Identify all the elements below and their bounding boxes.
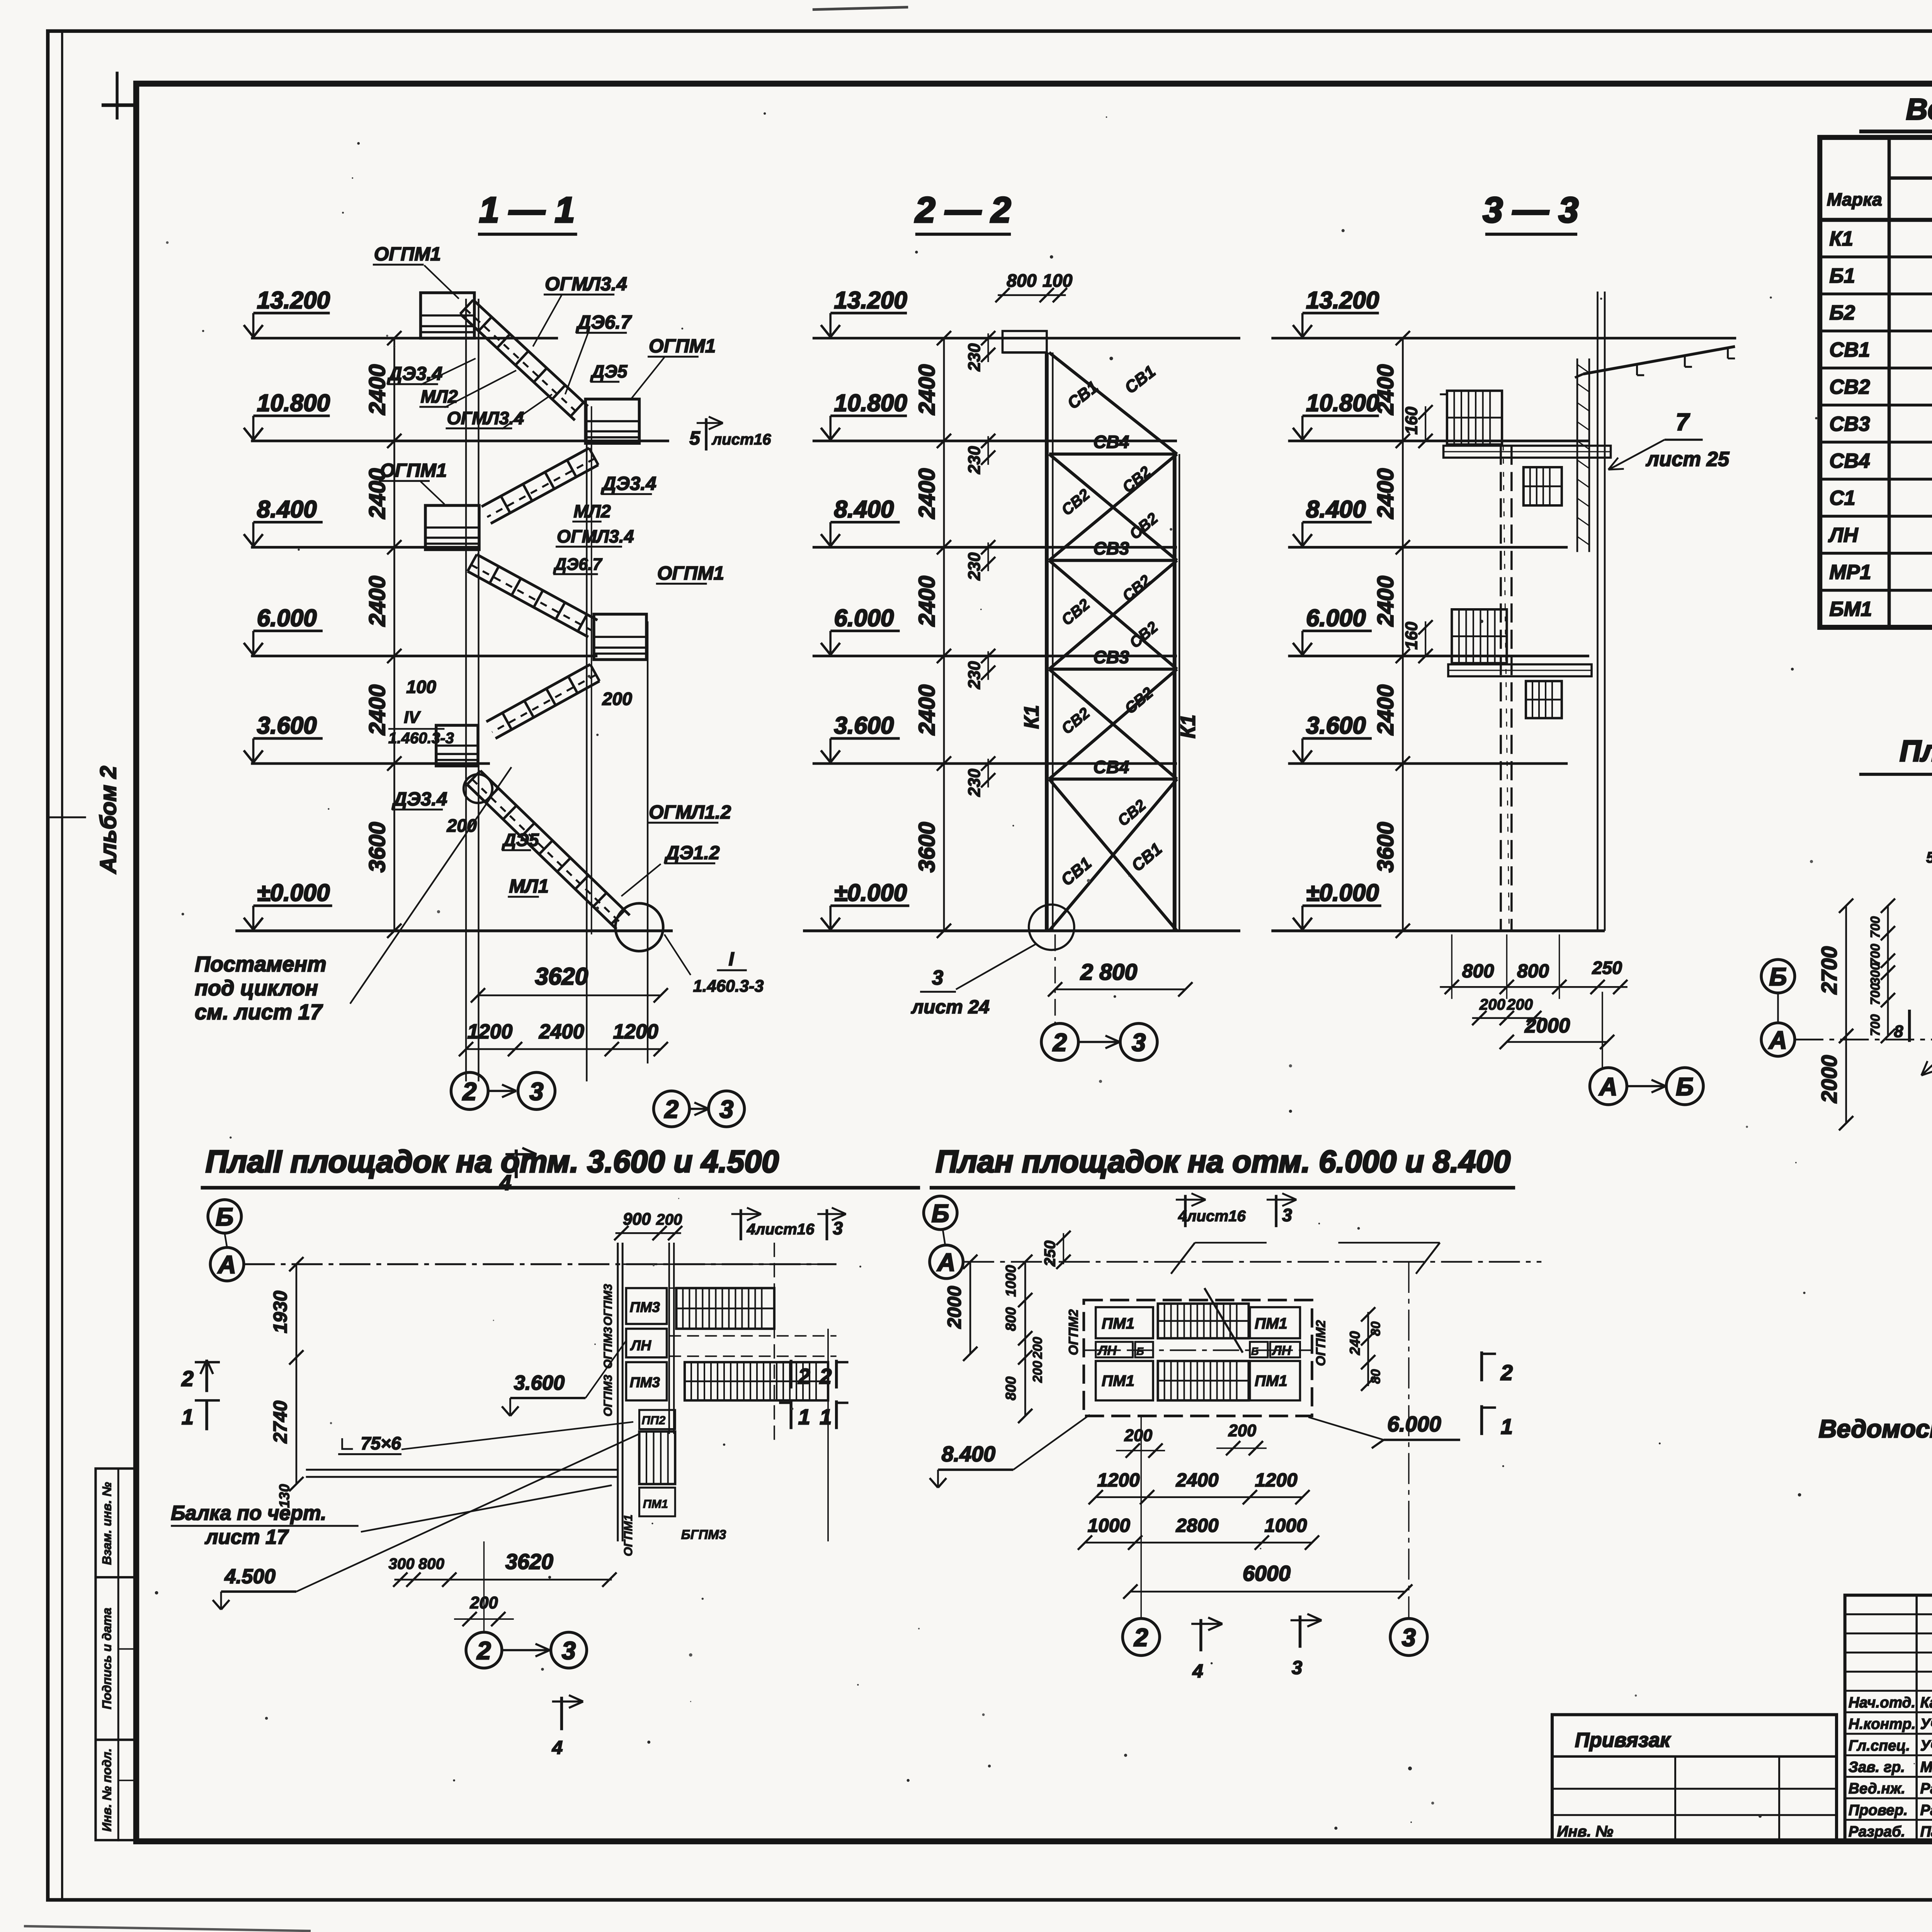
svg-text:Инв. № подл.: Инв. № подл. xyxy=(100,1748,114,1832)
svg-text:2400: 2400 xyxy=(1373,684,1398,735)
svg-text:1 — 1: 1 — 1 xyxy=(479,190,575,230)
svg-text:10.800: 10.800 xyxy=(834,390,907,417)
svg-text:7: 7 xyxy=(1676,409,1690,435)
svg-text:13.200: 13.200 xyxy=(834,287,907,314)
svg-text:ПМ1: ПМ1 xyxy=(1102,1315,1134,1332)
svg-text:Взам. инв. №: Взам. инв. № xyxy=(100,1482,114,1565)
svg-text:лист 24: лист 24 xyxy=(911,996,990,1017)
svg-text:800: 800 xyxy=(418,1555,444,1572)
svg-text:Зав. гр.: Зав. гр. xyxy=(1849,1759,1905,1776)
svg-text:ПП2: ПП2 xyxy=(642,1413,666,1427)
svg-text:±0.000: ±0.000 xyxy=(834,880,907,906)
svg-text:Инв. №: Инв. № xyxy=(1557,1823,1613,1840)
svg-text:8.400: 8.400 xyxy=(942,1442,995,1466)
svg-text:900: 900 xyxy=(623,1210,651,1229)
svg-text:Ведомость элементов для: Ведомость элементов для листов 15 и 16 xyxy=(1906,93,1932,126)
svg-text:1200: 1200 xyxy=(1097,1469,1140,1491)
svg-text:3600: 3600 xyxy=(914,822,939,872)
svg-text:3: 3 xyxy=(1132,1028,1146,1056)
svg-text:3 — 3: 3 — 3 xyxy=(1483,190,1579,230)
svg-text:ДЭ5: ДЭ5 xyxy=(590,361,628,381)
svg-text:200: 200 xyxy=(1479,996,1505,1013)
svg-text:ОГПМ3: ОГПМ3 xyxy=(601,1375,614,1417)
svg-text:10.800: 10.800 xyxy=(257,390,330,417)
svg-text:1: 1 xyxy=(798,1405,810,1429)
svg-text:2000: 2000 xyxy=(1817,1055,1841,1103)
svg-text:ЛН: ЛН xyxy=(630,1337,651,1353)
svg-text:2800: 2800 xyxy=(1176,1515,1219,1536)
svg-text:2 — 2: 2 — 2 xyxy=(915,190,1011,230)
svg-text:МЛ1: МЛ1 xyxy=(509,876,549,897)
svg-text:300: 300 xyxy=(389,1555,415,1572)
svg-text:3: 3 xyxy=(562,1636,576,1665)
svg-text:МЛ2: МЛ2 xyxy=(573,501,611,521)
svg-text:1: 1 xyxy=(1501,1415,1513,1439)
svg-text:2400: 2400 xyxy=(914,684,939,735)
svg-text:1200: 1200 xyxy=(1255,1469,1298,1491)
svg-text:6.000: 6.000 xyxy=(257,605,317,631)
svg-text:А: А xyxy=(937,1248,956,1276)
svg-text:800: 800 xyxy=(1003,1307,1019,1331)
svg-text:Межиборская: Межиборская xyxy=(1920,1759,1932,1776)
svg-text:Разраб.: Разраб. xyxy=(1849,1823,1905,1840)
svg-text:3.600: 3.600 xyxy=(514,1371,565,1394)
svg-text:1000: 1000 xyxy=(1264,1515,1307,1536)
svg-text:3: 3 xyxy=(1402,1623,1416,1651)
svg-text:8: 8 xyxy=(1894,1022,1903,1041)
svg-text:2: 2 xyxy=(798,1364,810,1388)
svg-text:ДЭ6.7: ДЭ6.7 xyxy=(576,311,633,333)
svg-text:Учитель: Учитель xyxy=(1920,1716,1932,1733)
svg-text:1000: 1000 xyxy=(1003,1265,1019,1297)
svg-text:ПМ1: ПМ1 xyxy=(1255,1315,1287,1332)
svg-text:БГПМ3: БГПМ3 xyxy=(681,1527,726,1542)
svg-text:2: 2 xyxy=(181,1367,194,1391)
svg-text:240: 240 xyxy=(1347,1331,1363,1355)
svg-text:3.600: 3.600 xyxy=(257,713,317,739)
svg-text:СВ3: СВ3 xyxy=(1094,538,1129,558)
svg-text:50: 50 xyxy=(1926,849,1932,866)
svg-text:ОГМЛ3.4: ОГМЛ3.4 xyxy=(557,526,634,546)
svg-text:МР1: МР1 xyxy=(1829,561,1871,583)
svg-text:2400: 2400 xyxy=(1373,364,1398,415)
svg-text:700: 700 xyxy=(1868,983,1883,1005)
svg-text:СВ3: СВ3 xyxy=(1094,647,1129,667)
svg-text:100: 100 xyxy=(1043,270,1073,291)
svg-text:IV: IV xyxy=(404,708,421,727)
svg-text:Провер.: Провер. xyxy=(1849,1802,1908,1818)
svg-text:80: 80 xyxy=(1369,1321,1383,1336)
svg-text:6.000: 6.000 xyxy=(1387,1412,1441,1436)
svg-text:ОГПМ1: ОГПМ1 xyxy=(380,460,447,481)
svg-text:2400: 2400 xyxy=(914,364,939,415)
svg-text:3: 3 xyxy=(833,1218,843,1238)
svg-text:А: А xyxy=(1599,1072,1617,1100)
svg-text:ПМ3: ПМ3 xyxy=(630,1299,660,1315)
svg-text:А: А xyxy=(1768,1026,1787,1054)
svg-text:6.000: 6.000 xyxy=(834,605,894,631)
svg-text:1: 1 xyxy=(820,1405,832,1429)
svg-text:±0.000: ±0.000 xyxy=(1306,880,1379,906)
svg-text:3: 3 xyxy=(1282,1205,1292,1225)
svg-text:8.400: 8.400 xyxy=(834,496,894,523)
svg-text:3600: 3600 xyxy=(1373,822,1398,872)
svg-text:Марка: Марка xyxy=(1827,189,1882,209)
svg-text:3: 3 xyxy=(529,1077,543,1105)
svg-text:2: 2 xyxy=(819,1364,832,1388)
svg-text:4: 4 xyxy=(1192,1661,1203,1682)
svg-text:Н.контр.: Н.контр. xyxy=(1849,1716,1916,1733)
svg-text:3: 3 xyxy=(719,1095,733,1123)
svg-text:2400: 2400 xyxy=(365,684,390,735)
svg-text:2740: 2740 xyxy=(270,1400,291,1444)
svg-text:800: 800 xyxy=(1007,270,1037,291)
svg-text:План площадок на отм. 6.000 и: План площадок на отм. 6.000 и 8.400 xyxy=(935,1145,1510,1179)
svg-text:С1: С1 xyxy=(1829,487,1855,510)
svg-text:1000: 1000 xyxy=(1088,1515,1131,1536)
svg-text:200: 200 xyxy=(1507,996,1533,1013)
svg-text:2: 2 xyxy=(1052,1028,1067,1056)
svg-text:Нач.отд.: Нач.отд. xyxy=(1849,1694,1915,1711)
svg-text:ОГМЛ3.4: ОГМЛ3.4 xyxy=(545,273,627,294)
svg-text:2400: 2400 xyxy=(365,364,390,415)
svg-text:2400: 2400 xyxy=(539,1020,584,1043)
svg-text:Учитель: Учитель xyxy=(1920,1737,1932,1754)
svg-text:Б: Б xyxy=(1676,1072,1694,1100)
svg-text:230: 230 xyxy=(965,446,984,474)
svg-text:4.500: 4.500 xyxy=(224,1565,276,1588)
svg-text:800: 800 xyxy=(1462,961,1494,982)
svg-text:Б2: Б2 xyxy=(1829,301,1855,324)
svg-text:2: 2 xyxy=(1500,1361,1513,1385)
svg-text:ДЭ6.7: ДЭ6.7 xyxy=(553,555,602,574)
svg-text:1.460.3-3: 1.460.3-3 xyxy=(388,729,454,747)
svg-text:230: 230 xyxy=(965,769,984,797)
svg-text:200: 200 xyxy=(1031,1361,1045,1383)
svg-text:5: 5 xyxy=(689,427,701,449)
svg-text:СВ2: СВ2 xyxy=(1829,376,1870,398)
svg-text:Привязак: Привязак xyxy=(1575,1729,1671,1752)
svg-text:ДЭ5: ДЭ5 xyxy=(502,830,539,850)
svg-text:Вед.нж.: Вед.нж. xyxy=(1849,1781,1905,1797)
svg-text:ДЭ3.4: ДЭ3.4 xyxy=(391,788,447,810)
svg-text:2400: 2400 xyxy=(914,468,939,519)
svg-text:2000: 2000 xyxy=(1524,1014,1570,1037)
svg-text:К1: К1 xyxy=(1829,227,1853,250)
svg-text:ОГПМ3: ОГПМ3 xyxy=(601,1327,614,1369)
svg-text:2400: 2400 xyxy=(1373,468,1398,519)
svg-text:ОГПМ3: ОГПМ3 xyxy=(601,1284,614,1326)
svg-text:200: 200 xyxy=(656,1211,682,1228)
svg-text:300: 300 xyxy=(1868,963,1883,985)
svg-text:Гл.спец.: Гл.спец. xyxy=(1849,1737,1910,1754)
svg-text:лист16: лист16 xyxy=(711,430,771,448)
svg-text:2: 2 xyxy=(462,1077,476,1105)
svg-text:6.000: 6.000 xyxy=(1306,605,1366,631)
svg-text:2400: 2400 xyxy=(365,576,390,627)
svg-text:БМ1: БМ1 xyxy=(1829,598,1872,621)
svg-text:План площадок на отм. 10.80: План площадок на отм. 10.800 и 13.200 xyxy=(1900,735,1932,768)
svg-text:Б: Б xyxy=(932,1199,949,1227)
svg-text:СВ3: СВ3 xyxy=(1829,413,1870,435)
svg-text:2400: 2400 xyxy=(1373,576,1398,627)
svg-text:1: 1 xyxy=(182,1405,194,1429)
svg-text:ПМ1: ПМ1 xyxy=(1102,1372,1134,1389)
svg-text:1930: 1930 xyxy=(270,1291,291,1333)
svg-text:3.600: 3.600 xyxy=(1306,713,1366,739)
svg-text:4лист16: 4лист16 xyxy=(1178,1207,1246,1225)
svg-text:2: 2 xyxy=(476,1636,491,1665)
svg-text:СВ4: СВ4 xyxy=(1829,450,1870,473)
svg-text:Капитульский: Капитульский xyxy=(1920,1694,1932,1711)
svg-text:К1: К1 xyxy=(1020,705,1043,729)
svg-text:2 800: 2 800 xyxy=(1080,960,1137,985)
svg-text:200: 200 xyxy=(1228,1422,1256,1440)
svg-text:А: А xyxy=(217,1250,236,1279)
svg-text:ДЭ3.4: ДЭ3.4 xyxy=(601,473,656,494)
svg-text:230: 230 xyxy=(965,661,984,689)
svg-text:К1: К1 xyxy=(1177,714,1199,738)
svg-text:Б: Б xyxy=(1136,1345,1144,1357)
svg-text:Ведомость элементов по сери: Ведомость элементов по серии 1.450.3-3 с… xyxy=(1819,1415,1932,1443)
svg-text:2700: 2700 xyxy=(1817,946,1841,995)
svg-text:ПлаII площадок на отм. 3.60: ПлаII площадок на отм. 3.600 и 4.500 xyxy=(206,1145,779,1179)
svg-text:Б: Б xyxy=(1251,1345,1259,1357)
svg-text:6000: 6000 xyxy=(1243,1561,1291,1585)
svg-text:200: 200 xyxy=(1031,1337,1045,1359)
svg-text:3620: 3620 xyxy=(505,1549,553,1573)
svg-text:∟ 75×6: ∟ 75×6 xyxy=(338,1433,401,1453)
svg-text:3.600: 3.600 xyxy=(834,713,894,739)
svg-text:800: 800 xyxy=(1517,961,1549,982)
svg-text:8.400: 8.400 xyxy=(257,496,317,523)
svg-text:лист 17: лист 17 xyxy=(204,1526,289,1548)
svg-text:ОГМЛ3.4: ОГМЛ3.4 xyxy=(447,408,524,428)
svg-text:Рапопорт: Рапопорт xyxy=(1920,1802,1932,1818)
svg-text:3: 3 xyxy=(932,966,943,989)
svg-text:13.200: 13.200 xyxy=(1306,287,1379,314)
svg-text:лист 25: лист 25 xyxy=(1645,448,1730,471)
svg-text:ПМ3: ПМ3 xyxy=(630,1374,660,1390)
svg-text:см. лист 17: см. лист 17 xyxy=(195,1000,323,1024)
svg-text:4: 4 xyxy=(552,1737,563,1759)
svg-text:80: 80 xyxy=(1369,1369,1383,1384)
svg-text:под циклон: под циклон xyxy=(195,976,318,1000)
svg-text:3600: 3600 xyxy=(365,822,390,872)
svg-text:СВ4: СВ4 xyxy=(1094,757,1129,777)
svg-text:1.460.3-3: 1.460.3-3 xyxy=(693,977,764,996)
svg-text:160: 160 xyxy=(1403,406,1421,434)
svg-text:13.200: 13.200 xyxy=(257,287,330,314)
svg-text:ОГПМ1: ОГПМ1 xyxy=(649,335,716,357)
svg-text:СВ1: СВ1 xyxy=(1829,338,1870,361)
svg-text:100: 100 xyxy=(406,677,436,697)
svg-text:10.800: 10.800 xyxy=(1306,390,1379,417)
svg-text:Б1: Б1 xyxy=(1829,264,1855,287)
svg-text:Подпись и дата: Подпись и дата xyxy=(100,1608,114,1709)
svg-text:ОГПМ2: ОГПМ2 xyxy=(1313,1320,1328,1366)
svg-text:±0.000: ±0.000 xyxy=(257,880,330,906)
svg-text:230: 230 xyxy=(965,344,984,372)
svg-text:250: 250 xyxy=(1592,957,1622,978)
svg-text:Б: Б xyxy=(216,1203,233,1231)
svg-text:Балка по черт.: Балка по черт. xyxy=(171,1502,326,1524)
svg-text:230: 230 xyxy=(965,553,984,581)
svg-text:1200: 1200 xyxy=(467,1020,512,1043)
svg-text:ОГПМ2: ОГПМ2 xyxy=(1066,1309,1081,1355)
svg-text:I: I xyxy=(729,949,735,970)
svg-text:Пащенко: Пащенко xyxy=(1920,1823,1932,1840)
svg-text:ЛН: ЛН xyxy=(1828,524,1858,546)
svg-text:ОГПМ1: ОГПМ1 xyxy=(657,563,724,584)
svg-text:800: 800 xyxy=(1003,1376,1019,1400)
svg-text:700: 700 xyxy=(1868,916,1883,938)
svg-text:Б: Б xyxy=(1769,963,1787,991)
svg-text:2: 2 xyxy=(664,1095,679,1123)
svg-text:200: 200 xyxy=(602,689,633,709)
svg-text:СВ4: СВ4 xyxy=(1094,432,1129,452)
svg-text:4лист16: 4лист16 xyxy=(747,1220,815,1238)
svg-text:ОГПМ1: ОГПМ1 xyxy=(374,243,441,265)
svg-text:3620: 3620 xyxy=(535,963,588,990)
svg-text:3: 3 xyxy=(1292,1657,1303,1678)
svg-text:2400: 2400 xyxy=(1176,1469,1219,1491)
svg-text:1200: 1200 xyxy=(613,1020,658,1043)
svg-text:Рапопорт: Рапопорт xyxy=(1920,1781,1932,1797)
svg-text:2400: 2400 xyxy=(914,576,939,627)
svg-text:Постамент: Постамент xyxy=(195,952,327,976)
svg-text:2000: 2000 xyxy=(944,1286,965,1329)
svg-text:8.400: 8.400 xyxy=(1306,496,1366,523)
svg-text:700: 700 xyxy=(1868,944,1883,966)
svg-text:ПМ1: ПМ1 xyxy=(1255,1372,1287,1389)
svg-text:ОГМЛ1.2: ОГМЛ1.2 xyxy=(649,801,731,823)
svg-text:ОГПМ1: ОГПМ1 xyxy=(621,1515,635,1556)
svg-text:2: 2 xyxy=(1133,1623,1148,1651)
svg-text:200: 200 xyxy=(1124,1426,1152,1445)
svg-text:ДЭ3.4: ДЭ3.4 xyxy=(387,363,442,384)
svg-text:Альбом 2: Альбом 2 xyxy=(96,766,121,874)
svg-text:ПМ1: ПМ1 xyxy=(643,1497,668,1511)
svg-text:ДЭ1.2: ДЭ1.2 xyxy=(664,842,719,863)
svg-text:160: 160 xyxy=(1403,622,1421,650)
svg-text:700: 700 xyxy=(1868,1014,1883,1036)
